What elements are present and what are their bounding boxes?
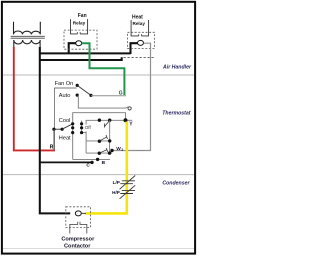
node heat B	[80, 131, 83, 134]
transformer T1 secondary winding	[14, 40, 41, 51]
fan switch blade	[77, 85, 91, 95]
svg-text:L/P: L/P	[113, 180, 120, 185]
node off A	[71, 126, 74, 129]
svg-text:Relay: Relay	[132, 21, 145, 26]
wire fan pivot to G terminal	[91, 95, 126, 97]
svg-text:R: R	[50, 144, 54, 150]
vertical link Y row to mid row	[109, 120, 111, 153]
wire C to thermostat C terminal	[40, 161, 92, 163]
svg-text:Contactor: Contactor	[64, 243, 91, 249]
wire R red (transformer to thermostat)	[14, 47, 55, 150]
node W1	[110, 149, 113, 152]
wire cool feed to Y (over the cluster)	[73, 113, 126, 124]
wire mid row	[86, 140, 110, 142]
heat relay coil box U2	[131, 20, 149, 36]
svg-text:Compressor: Compressor	[61, 236, 95, 242]
section divider (air handler / thermostat)	[3, 74, 194, 76]
svg-text:Condenser: Condenser	[162, 181, 190, 187]
wire W row	[86, 152, 112, 154]
wire G green (fan relay to G terminal)	[82, 43, 125, 95]
heat relay contact (circle)	[138, 40, 144, 45]
svg-text:1: 1	[121, 148, 123, 152]
mode selector blade (to Cool)	[62, 124, 73, 129]
selector column B vertical	[81, 121, 83, 133]
node heat A	[71, 131, 74, 134]
node W row 1	[98, 152, 101, 155]
transformer T1 primary winding	[14, 22, 41, 35]
svg-text:Heat: Heat	[132, 15, 143, 21]
thermostat outer box left edge	[55, 88, 77, 150]
svg-text:B: B	[102, 160, 106, 166]
wire heat relay feed	[131, 43, 138, 54]
node Y row 2	[108, 119, 111, 122]
svg-text:Thermostat: Thermostat	[162, 110, 191, 116]
node pivot right	[61, 128, 64, 131]
node cool A	[71, 122, 74, 125]
R terminal riser	[53, 129, 55, 150]
pressure switch L/P	[120, 176, 136, 190]
svg-text:Auto: Auto	[59, 93, 71, 99]
selector column A vertical	[72, 124, 74, 160]
switch arrow Y row	[105, 121, 110, 128]
svg-text:Air Handler: Air Handler	[162, 65, 192, 71]
wire 24V bus black (transformer to relays)	[40, 52, 131, 54]
svg-text:Off: Off	[85, 125, 92, 130]
node fan pivot	[89, 94, 92, 97]
dashed wire continuation to heat relay area	[124, 57, 155, 59]
heat relay dashed enclosure	[128, 32, 155, 48]
node W row 2	[108, 151, 111, 154]
node Y junction	[124, 118, 128, 122]
svg-text:Fan: Fan	[78, 13, 87, 19]
vertical left edge of switch cluster	[85, 141, 87, 153]
wire Y yellow (thermostat to condenser)	[85, 122, 126, 214]
wire B row	[73, 158, 110, 160]
wire W white/gray (heat relay to W1 terminal)	[112, 43, 151, 150]
node pivot left	[52, 128, 55, 131]
fan relay contact (circle)	[76, 41, 82, 46]
node mid 2	[108, 139, 111, 142]
compressor contactor contact (circle)	[75, 211, 81, 216]
svg-text:Relay: Relay	[73, 21, 86, 26]
wire auto to O-terminal row	[78, 95, 128, 108]
node auto	[76, 94, 79, 97]
wire C black (transformer to compressor contactor)	[40, 47, 70, 213]
node cool B	[80, 122, 83, 125]
fan relay dashed enclosure	[64, 30, 97, 49]
bottom faint divider	[3, 248, 194, 250]
border frame	[2, 2, 195, 254]
Y junction right stub	[126, 119, 133, 121]
svg-text:H/P: H/P	[112, 190, 120, 195]
node off B	[80, 126, 83, 129]
node fan-on	[76, 84, 79, 87]
selector row3 link	[82, 132, 87, 134]
wire common stub with dashed continuation	[40, 57, 122, 60]
node mid 1	[98, 140, 101, 143]
transformer T1 core	[11, 36, 45, 38]
switch blade mid row	[99, 135, 107, 141]
fan relay coil box U1	[71, 19, 88, 34]
node Y row 1	[98, 119, 101, 122]
node B	[96, 158, 99, 161]
mode selector pivot wire from R	[54, 128, 62, 130]
cluster left vertical lower part	[85, 131, 87, 141]
svg-text:Cool: Cool	[59, 118, 71, 124]
section divider (condenser)	[3, 174, 194, 176]
svg-text:G: G	[119, 91, 123, 97]
terminal O (open circle)	[128, 107, 131, 110]
switch blade W row	[99, 148, 107, 153]
svg-text:Fan On: Fan On	[55, 81, 74, 87]
node C	[90, 161, 93, 164]
compressor contactor dashed enclosure	[66, 207, 91, 228]
compressor contactor coil	[70, 222, 87, 234]
pressure switch H/P	[120, 185, 136, 199]
wire Y row	[86, 120, 125, 124]
wire contactor to yellow	[81, 212, 86, 214]
wire fan relay feed	[69, 43, 76, 53]
svg-text:Heat: Heat	[59, 135, 71, 141]
